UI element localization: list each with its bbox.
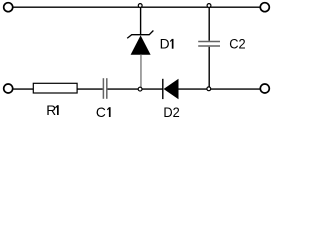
svg-text:D2: D2 <box>163 105 179 121</box>
svg-text:C: C <box>96 105 106 120</box>
svg-text:D: D <box>160 37 170 52</box>
svg-text:R: R <box>46 103 56 118</box>
svg-text:C2: C2 <box>229 36 245 52</box>
